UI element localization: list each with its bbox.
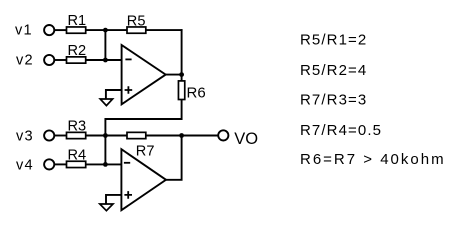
op-amp U2 <box>121 149 166 210</box>
terminal v4 <box>44 159 54 169</box>
resistor R5 <box>127 27 146 33</box>
wire R7 to VO terminal through node C <box>146 135 218 137</box>
wire C down to U2 output <box>166 136 182 180</box>
junction N2 <box>103 58 108 63</box>
svg-text:v1: v1 <box>15 23 33 39</box>
svg-text:R2: R2 <box>68 43 87 59</box>
svg-text:R7/R4=0.5: R7/R4=0.5 <box>300 122 382 139</box>
svg-text:R1: R1 <box>68 13 87 29</box>
terminal v1 <box>44 25 54 35</box>
wire U1 output <box>166 74 182 76</box>
svg-text:R7/R3=3: R7/R3=3 <box>300 92 367 109</box>
op-amp U1 <box>122 45 166 104</box>
svg-text:R7: R7 <box>136 143 155 159</box>
wire N1 down to N2 <box>104 30 106 60</box>
wire R1 to R5 through node N1 <box>86 29 127 31</box>
svg-text:v4: v4 <box>16 157 34 173</box>
wire v1 terminal to R1 <box>55 29 67 31</box>
svg-text:v3: v3 <box>16 128 34 144</box>
wire R6 bottom to node A <box>105 100 181 136</box>
wire R2 to op-amp U1 inverting input <box>86 59 122 61</box>
resistor R2 <box>67 57 86 63</box>
wire R3 to R7 through node A <box>86 135 127 137</box>
svg-text:R4: R4 <box>68 147 87 163</box>
resistor R6 <box>178 81 184 100</box>
junction N3 output of U1 <box>179 72 184 77</box>
wire R4 to op-amp U2 inverting input <box>86 163 122 165</box>
U2 plus sign <box>124 191 132 199</box>
svg-text:VO: VO <box>234 130 258 148</box>
terminal VO <box>218 130 228 140</box>
terminal v2 <box>44 55 54 65</box>
wire v4 terminal to R4 <box>55 163 67 165</box>
ground G2 <box>100 204 113 211</box>
U2 minus sign <box>124 162 130 164</box>
wire R5 to right corner <box>146 29 183 31</box>
junction B <box>103 162 108 167</box>
wire right vertical down to R6 <box>181 29 183 81</box>
svg-text:v2: v2 <box>16 52 34 68</box>
ground G1 <box>100 99 112 106</box>
resistor R1 <box>67 27 86 33</box>
terminal v3 <box>44 130 54 140</box>
svg-text:R3: R3 <box>68 118 87 134</box>
wire A down to B <box>104 136 106 165</box>
svg-text:R5/R1=2: R5/R1=2 <box>300 32 367 49</box>
resistor R4 <box>67 161 86 167</box>
svg-text:R5: R5 <box>127 13 146 29</box>
wire v3 terminal to R3 <box>55 135 67 137</box>
U1 plus sign <box>125 86 133 94</box>
wire v2 terminal to R2 <box>55 59 67 61</box>
resistor R7 <box>127 132 146 138</box>
svg-text:R6=R7 > 40kohm: R6=R7 > 40kohm <box>300 151 446 168</box>
junction A <box>103 133 108 138</box>
junction N1 <box>103 28 108 33</box>
U1 minus sign <box>125 58 131 60</box>
svg-text:R6: R6 <box>187 84 206 101</box>
svg-text:R5/R2=4: R5/R2=4 <box>300 62 367 79</box>
wire U1 plus input to ground <box>106 90 122 99</box>
junction C <box>179 133 184 138</box>
resistor R3 <box>67 132 86 138</box>
wire U2 plus input to ground <box>106 195 121 204</box>
